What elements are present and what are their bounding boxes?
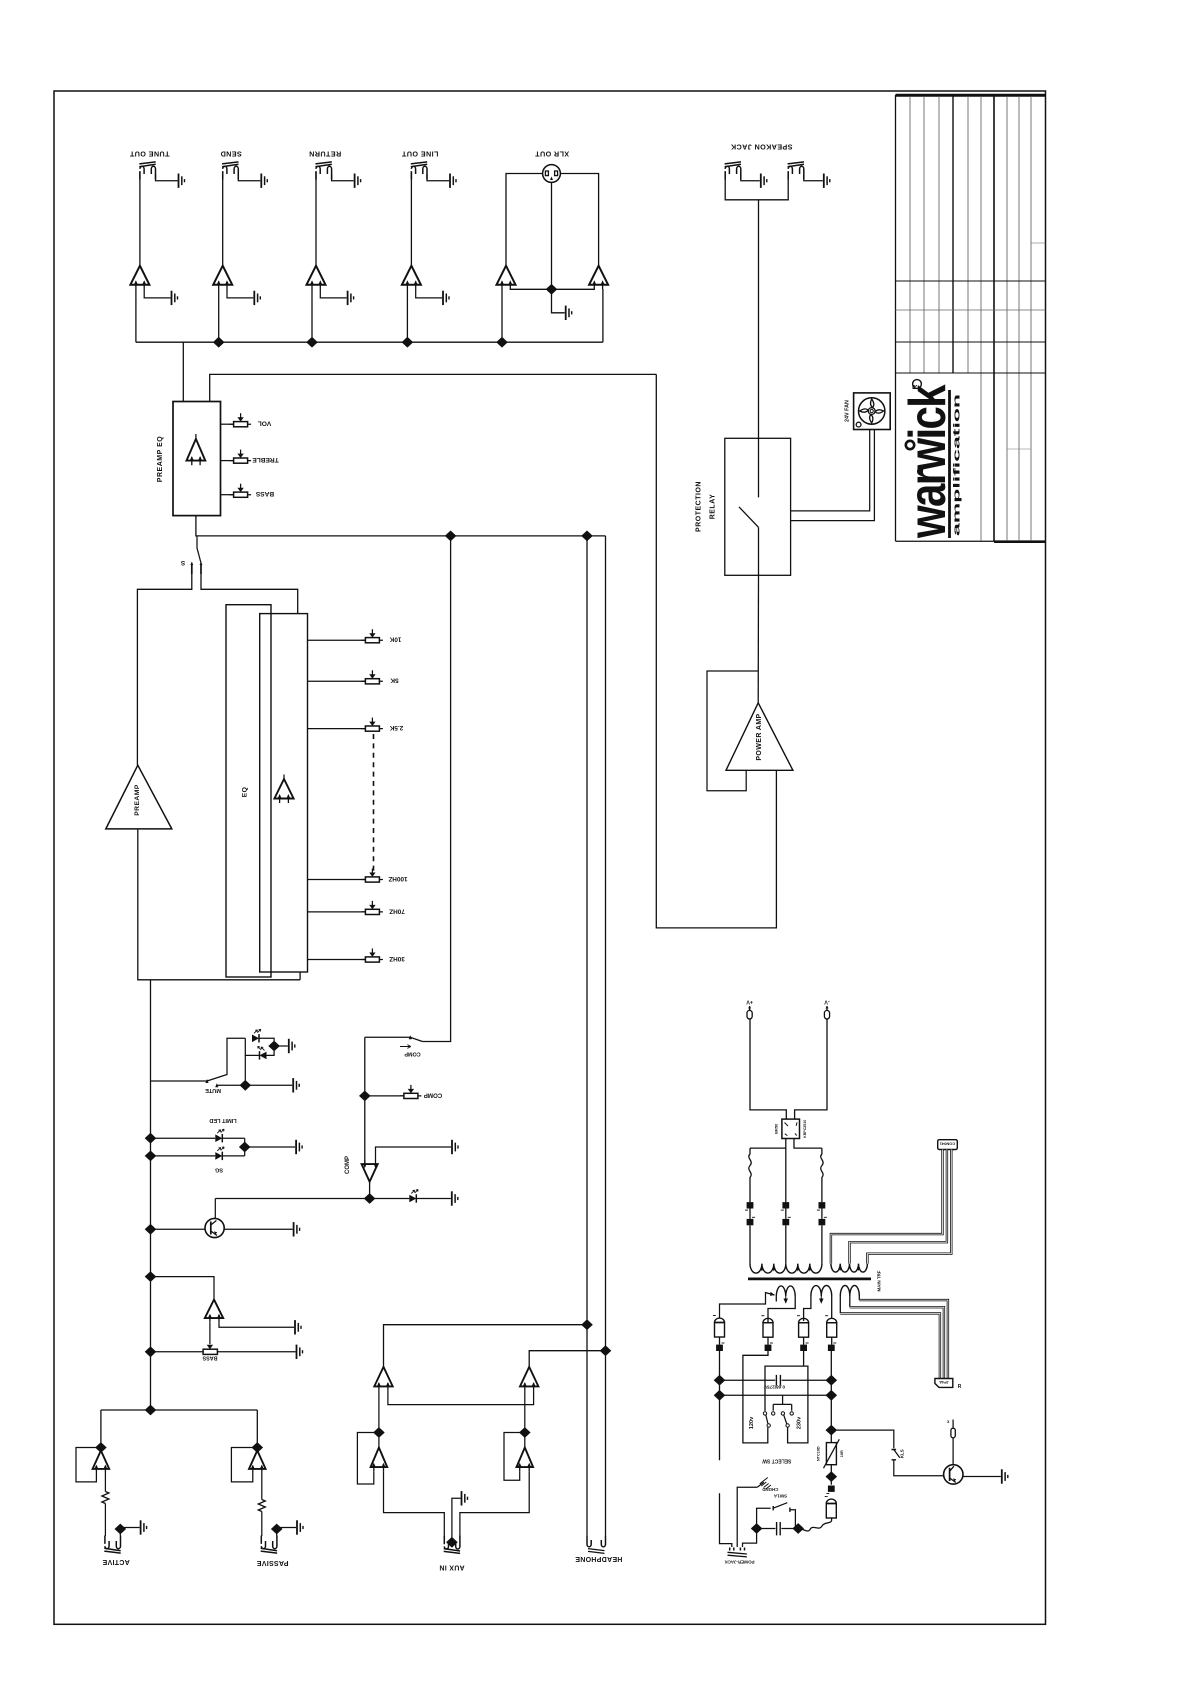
node (passive fb junction) [251,1442,263,1453]
wire xlr junction to ground [552,289,565,313]
wire switch right to eq input [201,574,298,614]
wire preamp eq output down [196,516,606,536]
node (passive jack junction) [271,1524,296,1536]
potentiometer 2.5K [308,718,404,732]
wire input split [101,1409,257,1411]
ground (mute lower) [293,1078,299,1092]
wire stub to eq inner box [299,972,301,980]
svg-text:S: S [180,559,185,566]
svg-text:KBPC2510: KBPC2510 [803,1120,807,1138]
resistor R1 [102,1473,109,1536]
node (send bus junction) [213,337,225,348]
node (row2 left) [714,1390,726,1401]
wire jack SEND to ground [238,174,260,181]
wire C2 to selector [743,1337,768,1443]
wire bus tap to preamp eq [182,342,184,401]
node (rail limit junction) [145,1133,157,1144]
wire -V to rectifier [795,1019,827,1119]
transformer secondary A [768,1286,795,1323]
svg-text:LINE OUT: LINE OUT [401,150,438,159]
ground (comp led) [452,1191,458,1205]
svg-text:HEADPHONE: HEADPHONE [575,1555,622,1562]
wire TUNE jack to op-amp [139,172,141,266]
svg-text:MUTE: MUTE [205,1087,221,1093]
wire U2 inverting input to ground [227,289,253,298]
jack HEADPHONE [575,1536,622,1562]
node (line out bus junction) [402,337,414,348]
svg-text:+V: +V [746,999,753,1005]
page border frame [54,91,1046,1624]
potentiometer TREBLE [221,450,279,464]
wire aux jack to ground [452,1498,461,1544]
svg-text:TREBLE: TREBLE [252,456,279,463]
Warwick logo [899,380,963,539]
wire fuse to jack [720,1493,732,1547]
svg-text:10R: 10R [840,1450,844,1457]
wire to active buffer [100,1410,102,1448]
svg-text:MAIN TRF: MAIN TRF [877,1270,882,1291]
pin pads row 1 [745,1202,825,1210]
svg-text:SG: SG [215,1167,223,1173]
op-amp U1 (tune out buffer) [130,266,149,290]
wire aux L input to jack [384,1471,445,1536]
wire speakon2 to ground [804,174,823,181]
transformer primary winding 1 [750,1264,822,1274]
svg-text:NTC10D: NTC10D [817,1446,821,1461]
wire power amp input loop [656,374,776,928]
terminal +V [746,999,753,1020]
node (mute lower junction) [240,1080,252,1091]
node (mute led junction) [268,1041,280,1052]
svg-text:SELECT SW: SELECT SW [762,1458,791,1464]
jack speakon 1 [725,162,741,180]
wire aux L to input amp [378,1391,380,1448]
node (xlr center junction) [546,284,558,295]
eq outer block [226,605,271,977]
jack ACTIVE [102,1536,129,1566]
wire row2 [720,1395,832,1404]
wire SEND jack to op-amp [222,172,224,266]
wire to passive buffer [256,1410,258,1448]
fan 24V [845,393,891,430]
potentiometer 70HZ [308,901,405,915]
node (return bus junction) [306,337,318,348]
svg-text:230v: 230v [797,1416,803,1429]
fuse holder main [825,1497,837,1519]
op-amp inside eq [274,775,293,804]
svg-text:5K: 5K [390,677,399,684]
svg-text:24V FAN: 24V FAN [845,400,851,422]
ground (limit) [296,1140,302,1154]
jack LINE OUT [401,150,438,180]
capacitor mains [757,1522,799,1535]
title block outer box [896,95,1046,542]
wire U4 input to bus [406,289,408,342]
wire switch left to preamp [137,574,191,765]
svg-text:JP4A: JP4A [939,1380,949,1384]
node (row2 right) [826,1390,838,1401]
op-amp U6 (xlr - driver) [589,266,608,290]
wire xlr opamp inner inputs [510,288,594,290]
connector JP4A [935,1379,962,1390]
svg-text:100HZ: 100HZ [388,875,407,882]
wire jack RETURN to ground [332,174,354,181]
fuse F1 [749,1148,751,1202]
svg-text:-V: -V [824,999,830,1005]
svg-text:EQ: EQ [242,787,249,798]
LED D2 [245,1038,274,1059]
node (input split junction) [145,1405,157,1416]
voltage selector switch [749,1404,803,1463]
wire jack TUNE to ground [156,174,178,181]
ground (Q2) [1002,1469,1008,1483]
transformer core [748,1270,882,1291]
wire active feedback loop [76,1448,101,1482]
wire master + input to ground [219,1322,294,1327]
wire speakon1 to ground [741,174,760,181]
wire U3 input to bus [311,289,313,342]
wire preamp eq to power amp (long top line) [210,374,657,401]
wire U5 input to bus [501,289,503,342]
op-amp aux L input [371,1448,388,1472]
ground (comp input) [452,1140,458,1154]
wire U4 inverting input to ground [416,289,442,298]
node (comp pot junction) [359,1091,371,1102]
relay contact [739,438,759,575]
pin pads row 2 [747,1217,827,1225]
jack TUNE OUT [129,150,169,180]
switch MUTE [151,1038,246,1093]
wire secondary A to C1 with tap arrow [720,1292,775,1318]
node (rail q1 junction) [145,1224,157,1235]
wire mid column [785,1148,787,1202]
potentiometer 10K [308,629,402,643]
fuse wire squiggle [798,1518,831,1531]
XLR OUT connector [535,150,570,183]
wire to master buffer [151,1277,215,1300]
jack RETURN [309,150,341,180]
fuse F2 [821,1148,823,1202]
ground (SEND jack) [261,174,267,188]
wire comp output to Q1 [215,1198,369,1200]
wires CON041 to transformer (3 pairs) [831,1150,951,1264]
fuse holder C4 [825,1316,837,1338]
wire aux L feedback [357,1433,379,1485]
resistor R2 [258,1473,265,1536]
svg-text:R: R [958,1384,962,1390]
switch COMP [365,1035,423,1056]
node (comp rail junction) [445,531,457,542]
ground (mute leds) [289,1039,295,1053]
svg-text:70HZ: 70HZ [389,907,405,914]
wire passive feedback loop [231,1448,257,1482]
wire comp + input to ground [376,1147,452,1161]
LED D1 [252,1029,274,1042]
pad C2 [765,1343,773,1351]
pad C1 [716,1343,724,1351]
wire comp rail to switch [422,536,450,1042]
potentiometer VOL [221,413,272,427]
op-amp U2 (send buffer) [213,266,232,290]
jack PASSIVE [257,1536,289,1567]
power jack [724,1548,755,1565]
wires pads to transformer [750,1209,822,1264]
wire chgnd to jack [737,1487,757,1547]
transistor Q2 [944,1465,1001,1484]
wire +V to rectifier [750,1019,786,1119]
potentiometer COMP [365,1085,442,1099]
bridge rectifier B1 [773,1119,807,1138]
node (comp output junction) [364,1193,376,1204]
ground (xlr) [566,306,572,320]
svg-text:COMP: COMP [424,1091,443,1098]
svg-text:KLS: KLS [900,1449,905,1458]
title block column lines [910,96,1031,541]
pad NTC [826,1486,834,1494]
switch SW1A [757,1494,796,1529]
transistor Q1 [151,1199,293,1238]
svg-text:RETURN: RETURN [309,150,341,159]
potentiometer BASS [221,484,275,498]
potentiometer 5K [308,670,399,684]
svg-text:2.5K: 2.5K [389,724,403,731]
svg-text:ACTIVE: ACTIVE [102,1558,129,1565]
node (aux L junction) [581,1319,593,1330]
wire U1 inverting input to ground [144,289,170,298]
NTC resistor [817,1439,844,1468]
wire speakon to relay [758,200,760,438]
jack AUX IN [439,1536,465,1571]
op-amp aux R input [517,1448,534,1472]
pad C4 [828,1343,836,1351]
jack speakon 2 [788,162,804,180]
connector CON041 [938,1140,958,1150]
node (rail sg junction) [145,1151,157,1162]
wire jack LINE OUT to ground [427,174,449,181]
wire aux R feed [529,1351,605,1367]
node (aux R in junction) [519,1427,531,1438]
label SPEAKON JACK [730,143,792,152]
wire U3 inverting input to ground [320,289,346,298]
op-amp passive buffer [249,1451,266,1474]
node (xlr bus junction) [496,337,508,348]
svg-text:XLR OUT: XLR OUT [535,150,570,159]
wire mute lower contact [215,1055,292,1087]
ground (LINE OUT jack) [450,174,456,188]
svg-text:30HZ: 30HZ [389,955,405,962]
wire C1 pad down [719,1337,721,1460]
node (aux rail junction) [581,531,593,542]
op-amp master buffer [205,1300,223,1323]
wire preamp output down [138,829,300,980]
ground (active jack) [141,1520,147,1534]
transformer secondary C [840,1286,859,1314]
wire U1 input to bus [135,289,137,342]
node (row1 right) [826,1375,838,1386]
node (rail master junction) [145,1271,157,1282]
ground (master input) [295,1320,301,1334]
jack SEND [220,150,242,180]
svg-text:CHGND: CHGND [762,1487,778,1492]
ground (U3) [348,291,354,305]
wire main left rail [150,980,152,1410]
wire mains L to jack [743,1529,757,1548]
sensor c [946,1420,955,1465]
svg-text:PREAMP: PREAMP [134,784,141,816]
LED D3 limit [151,1129,245,1142]
wire U6 input to bus [602,289,604,342]
capacitor X 0.68/275V [720,1375,832,1389]
node (aux L in junction) [373,1427,385,1438]
node (active fb junction) [95,1442,107,1453]
power amp triangle [726,703,793,771]
wire power amp feedback [707,671,758,791]
wire rectifier outputs [750,1139,822,1149]
node (NTC top) [826,1425,838,1436]
svg-text:10K: 10K [389,636,401,643]
preamp eq block [157,402,221,516]
pad C3 [800,1343,808,1351]
potentiometer 30HZ [308,949,405,963]
wire XLR pin3 to right op-amp [560,174,598,266]
wire headphone rails down [587,1325,606,1536]
preamp triangle [106,765,172,829]
svg-text:VOL: VOL [258,420,272,427]
wire aux R to input amp [524,1391,526,1448]
svg-text:SPEAKON JACK: SPEAKON JACK [730,143,792,152]
protection relay box [696,438,791,575]
node (aux R junction) [600,1345,612,1356]
svg-text:POWER-JACK: POWER-JACK [724,1559,755,1564]
terminal -V [824,999,830,1020]
svg-text:CON041: CON041 [939,1141,955,1146]
svg-text:AUX IN: AUX IN [439,1564,465,1571]
thermal switch KLS [892,1449,905,1460]
svg-text:POWER AMP: POWER AMP [756,713,763,760]
svg-text:SW1A: SW1A [773,1494,787,1499]
wire led junction to ground [274,1045,288,1047]
ground (speakon2) [824,174,830,188]
title block row lines [896,243,1046,449]
node (active jack junction) [115,1524,140,1536]
switch S [180,536,202,574]
label SG [215,1167,223,1173]
wire to KLS [831,1430,894,1448]
op-amp aux L mixer [374,1367,392,1391]
node (limit led junction) [239,1142,251,1153]
node (aux jack junction) [446,1537,458,1548]
wire relay to fan (pair) [791,430,875,521]
chassis ground CHGND [757,1478,778,1493]
op-amp U3 (return buffer) [307,266,326,290]
svg-text:BR50: BR50 [773,1123,778,1134]
wire C4 pad down [830,1337,832,1442]
svg-text:COMP: COMP [404,1051,421,1057]
wire NTC down / node [826,1465,838,1485]
svg-text:0.68/275V: 0.68/275V [763,1384,785,1389]
svg-text:PASSIVE: PASSIVE [257,1559,289,1566]
wire XLR pin2 to left op-amp [506,174,543,266]
op-amp active buffer [93,1451,110,1474]
svg-text:120v: 120v [749,1416,755,1429]
dashed wiper link [373,734,375,872]
ground (passive jack) [297,1520,303,1534]
ground (U4) [443,291,449,305]
svg-text:BASS: BASS [255,490,274,497]
wire output bus [136,341,603,343]
node (mains L) [751,1523,763,1534]
wire to ground (limit) [245,1146,295,1148]
wire LINE OUT jack to op-amp [410,172,412,266]
svg-text:R: R [912,384,919,389]
LED D4 sg [151,1138,245,1160]
ground (Q1) [294,1222,300,1236]
wire aux right rail [605,536,607,1351]
LED D5 (comp) [370,1190,451,1203]
wire relay to power amp [757,575,759,703]
op-amp aux R mixer [520,1367,538,1391]
ground (aux) [462,1491,468,1505]
wire aux left rail [586,536,588,1325]
op-amp U5 (xlr + driver) [497,266,516,290]
ground (U1) [172,291,178,305]
node (rail pot junction) [145,1346,157,1357]
wire comp switch down [364,1037,366,1164]
svg-text:LIMIT LED: LIMIT LED [209,1117,236,1123]
potentiometer master volume [151,1322,296,1360]
op-amp U4 (line out buffer) [402,266,421,290]
transformer primary winding 2 [831,1264,868,1273]
svg-text:BASS: BASS [202,1354,217,1360]
svg-text:SEND: SEND [220,150,242,159]
wire aux mixer cross link [388,1391,534,1405]
svg-text:PROTECTION: PROTECTION [696,481,703,532]
label LIMIT LED [209,1117,236,1123]
ground (TUNE jack) [179,174,185,188]
ground (master pot) [297,1345,303,1359]
svg-text:amplification: amplification [952,394,963,536]
ground (U2) [254,291,260,305]
svg-text:TUNE OUT: TUNE OUT [129,150,169,159]
svg-text:PREAMP EQ: PREAMP EQ [157,436,164,482]
transformer secondary B [804,1286,832,1322]
wire speakon bridge [725,172,788,200]
node (row1 left) [714,1375,726,1386]
wire U2 input to bus [218,289,220,342]
svg-text:c: c [946,1420,949,1425]
wire RETURN jack to op-amp [315,172,317,266]
wire C3 to selector [765,1337,808,1443]
svg-text:COMP: COMP [345,1156,351,1174]
ground (speakon1) [761,174,767,188]
svg-text:RELAY: RELAY [710,494,717,520]
wire XLR pin1 down [551,182,553,289]
wire aux L feed [384,1325,588,1367]
fuse holder C1 [713,1316,725,1338]
wire aux R feedback [504,1433,525,1481]
wires secondary C to JP4A (3 pairs) [840,1300,948,1378]
wire aux R input to jack [460,1471,529,1536]
fuse holder C2 [761,1316,773,1338]
wire comp output [369,1182,371,1199]
potentiometer 100HZ [308,869,408,883]
fuse holder C3 [797,1316,809,1338]
ground (RETURN jack) [355,174,361,188]
node (mains R) [792,1523,804,1534]
op-amp COMP (points down) [345,1156,378,1182]
op-amp inside preamp eq [187,434,206,465]
wire KLS to Q2 [894,1460,944,1476]
